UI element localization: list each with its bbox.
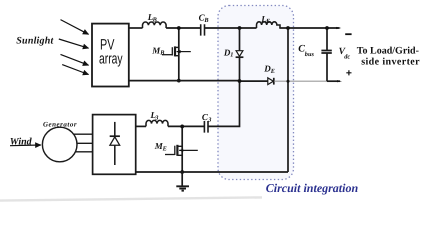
svg-text:E: E <box>270 68 275 75</box>
wire: top rail PV to L_B <box>129 27 143 29</box>
junction D1/bottom rail <box>238 79 242 83</box>
wind bottom rail <box>136 171 288 173</box>
wire D1 column upper <box>239 28 241 51</box>
minus sign <box>345 33 351 35</box>
svg-text:side inverter: side inverter <box>361 56 420 67</box>
bottom rail PV <box>129 80 268 83</box>
inductor L_B <box>143 22 167 28</box>
svg-text:B: B <box>159 50 164 57</box>
right vertical wire of integration box <box>287 28 289 172</box>
terminal arrow top <box>336 27 341 29</box>
junction bottom M_B <box>177 79 181 83</box>
svg-text:3: 3 <box>154 114 158 121</box>
inductor L_E <box>257 22 281 28</box>
MOSFET M_E drain-source line <box>181 126 183 172</box>
rectifier box <box>93 115 136 175</box>
wire: C_B to L_E <box>205 27 257 29</box>
svg-text:E: E <box>265 18 270 25</box>
sun arrow 4 <box>62 65 88 75</box>
sun arrow 2 <box>59 39 89 48</box>
integration dashed box <box>218 6 294 180</box>
wire C_bus bottom to terminal <box>327 80 340 82</box>
junction bottom M_E <box>180 170 184 174</box>
3-phase wires <box>74 134 93 152</box>
wire: L_E to output top <box>279 27 339 29</box>
MOSFET M_E <box>165 145 198 156</box>
generator circle <box>42 127 77 162</box>
wire D_E cathode to C_bus (grey) <box>274 80 327 82</box>
MOSFET M_B <box>162 46 191 56</box>
wire L_3 to C_3 <box>168 125 204 127</box>
rectifier diode <box>114 122 116 136</box>
wind arrow <box>10 144 41 147</box>
svg-text:array: array <box>99 50 123 67</box>
svg-text:1: 1 <box>230 52 233 59</box>
junction top M_B <box>177 26 181 30</box>
plus sign <box>346 70 351 75</box>
capacitor C_B <box>201 24 205 35</box>
PV array box <box>92 24 129 87</box>
wind top rail: rectifier to L_3 <box>136 125 146 127</box>
svg-text:B: B <box>152 17 157 24</box>
ground <box>181 172 183 186</box>
svg-text:3: 3 <box>207 116 211 123</box>
junction top M_E <box>180 125 184 129</box>
svg-text:E: E <box>162 145 167 152</box>
capacitor C_3 <box>204 121 208 133</box>
svg-text:B: B <box>203 17 208 24</box>
scan artifact streak <box>0 197 262 200</box>
sun arrow 1 <box>61 20 89 35</box>
diode D1 <box>236 51 243 57</box>
svg-text:Sunlight: Sunlight <box>16 36 54 47</box>
svg-text:dc: dc <box>344 53 350 60</box>
wire D1 column lower to C3 <box>208 57 240 126</box>
svg-text:Circuit integration: Circuit integration <box>266 181 359 195</box>
inductor L_3 <box>146 120 168 126</box>
wire: L_B to C_B <box>166 27 200 29</box>
sun arrow 3 <box>61 54 89 65</box>
node D1 top junction <box>238 26 242 30</box>
MOSFET M_B drain-source line <box>178 28 180 81</box>
diode D_E <box>268 78 274 85</box>
svg-text:To Load/Grid-: To Load/Grid- <box>357 45 419 56</box>
terminal arrow bottom <box>337 80 342 82</box>
capacitor C_bus <box>326 28 328 50</box>
svg-text:bus: bus <box>305 51 315 58</box>
